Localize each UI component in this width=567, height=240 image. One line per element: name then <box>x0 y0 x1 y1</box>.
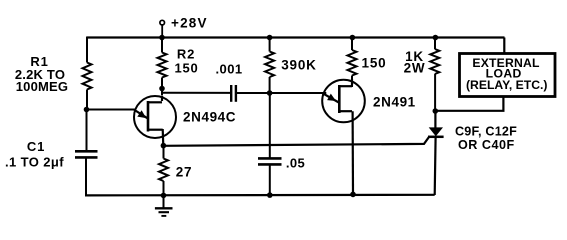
wire R4 bottom lead <box>351 76 353 88</box>
wire trigger Q1 base1 to SCR gate <box>164 136 430 145</box>
label C2 value <box>216 61 243 76</box>
svg-text:R2: R2 <box>177 46 195 61</box>
svg-text:2W: 2W <box>404 60 426 75</box>
label C3 value <box>286 156 305 171</box>
label R2 value <box>174 46 198 75</box>
wire base2 to C2 <box>162 92 231 94</box>
wire R2 bottom lead <box>161 78 163 96</box>
terminal +28V <box>160 20 165 37</box>
wire node C to C3 <box>269 93 271 158</box>
node C3 bottom on rail <box>267 192 273 198</box>
svg-text:+28V: +28V <box>171 16 208 31</box>
resistor R5 1K 2W <box>430 49 439 74</box>
wire R1 bottom lead <box>86 90 88 110</box>
svg-text:2N491: 2N491 <box>373 94 416 109</box>
label R1 value <box>15 54 68 94</box>
resistor R4 150 <box>348 50 357 76</box>
ground <box>155 195 173 216</box>
capacitor C1 <box>75 151 98 157</box>
svg-text:OR C40F: OR C40F <box>458 138 515 152</box>
wire R3 top lead <box>269 38 271 52</box>
node R4 top on rail <box>350 35 356 41</box>
svg-text:C1: C1 <box>27 139 45 154</box>
wire C1 bottom lead <box>85 157 87 196</box>
capacitor C3 .05 <box>258 158 282 164</box>
wire R2 top lead from rail <box>161 38 163 53</box>
svg-text:150: 150 <box>362 55 387 70</box>
label Q1 2N494C <box>183 110 236 125</box>
wire R6 top lead <box>163 146 165 159</box>
node R6 bottom on rail <box>161 193 167 199</box>
svg-text:.05: .05 <box>286 156 305 171</box>
resistor R2 <box>158 53 167 78</box>
label CR1 types <box>455 124 517 152</box>
capacitor C2 .001 <box>231 85 236 102</box>
resistor R1 <box>83 63 92 90</box>
wire top +28V supply rail <box>87 36 505 38</box>
node E junction base1-R6-gate <box>161 143 167 149</box>
node Q2 bottom on rail <box>350 192 356 198</box>
node R3 top on rail <box>267 35 273 41</box>
wire R6 bottom lead <box>163 181 165 195</box>
svg-text:390K: 390K <box>281 57 316 72</box>
wire R1 top lead from rail <box>86 37 88 63</box>
label R6 value <box>176 165 193 180</box>
svg-text:C9F, C12F: C9F, C12F <box>455 124 517 138</box>
svg-text:27: 27 <box>176 165 193 180</box>
wire emitter Q1 <box>87 109 135 111</box>
svg-text:.1 TO 2μf: .1 TO 2μf <box>5 154 64 169</box>
svg-text:(RELAY, ETC.): (RELAY, ETC.) <box>466 78 547 92</box>
block external load <box>460 54 556 97</box>
wire R5 bottom lead <box>434 74 436 111</box>
label external load <box>466 56 547 92</box>
label C1 value <box>5 139 64 169</box>
wire C3 bottom lead <box>269 164 271 195</box>
svg-text:2N494C: 2N494C <box>183 110 236 125</box>
label Q2 2N491 <box>373 94 416 109</box>
node D junction R5-SCR-load <box>433 108 439 114</box>
wire R5 top lead <box>434 38 436 50</box>
label R5 value <box>404 49 426 75</box>
node B junction R2-base2-C2 <box>159 86 165 92</box>
thyristor CR1 C9F/C12F/C40F <box>428 111 444 195</box>
wire rail to load top <box>503 38 505 54</box>
wire load bottom to node D <box>435 97 503 111</box>
wire Q2 base1 to bottom rail <box>352 111 355 194</box>
svg-text:100MEG: 100MEG <box>16 79 69 94</box>
svg-text:.001: .001 <box>216 61 243 76</box>
wire R3 bottom lead <box>269 77 271 93</box>
wire bottom ground rail <box>86 194 435 197</box>
resistor R3 390K <box>265 52 274 78</box>
node C junction C2-R3-Q2emitter <box>267 90 273 96</box>
wire R4 top lead <box>351 38 353 51</box>
wire node C to Q2 emitter <box>270 92 327 94</box>
resistor R6 27 <box>159 159 168 182</box>
transistor Q2 2N491 <box>322 79 365 122</box>
label R3 value <box>281 57 316 72</box>
transistor Q1 2N494C <box>134 96 176 146</box>
node A junction R1-C1-emitter <box>84 107 90 113</box>
svg-text:150: 150 <box>174 61 198 76</box>
wire C1 top lead <box>86 110 88 152</box>
wire C2 to node C <box>236 92 270 94</box>
node R2 top on rail <box>159 35 165 41</box>
node R5 top on rail <box>433 35 439 41</box>
label R4 value <box>362 55 387 70</box>
label +28V <box>171 16 208 31</box>
